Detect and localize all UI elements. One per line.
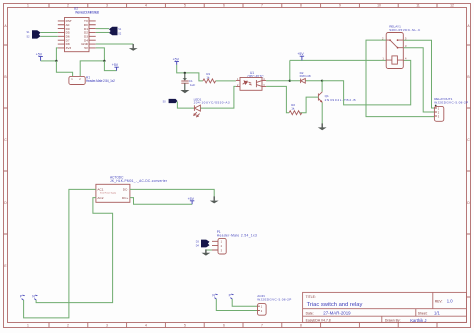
opto-coupler U1 OPC-817C [236,71,266,90]
+5V flag (ACTODC DC+) [188,197,195,204]
svg-text:AC1: AC1 [97,188,103,192]
svg-text:4: 4 [145,4,147,8]
wire base [300,97,319,113]
svg-text:5: 5 [184,4,186,8]
svg-text:+5V: +5V [173,58,180,62]
net flag P~ (ACIN) [229,294,234,300]
connector plug J-right (D1/D2) [109,27,122,36]
svg-text:1.0: 1.0 [447,299,453,304]
wire relay pin2 (COM) to RELAYOUT pin3 [366,40,434,117]
node junction (C1 tap) [184,72,186,74]
wire +5V rail to 3V3 junction [41,60,57,62]
wire collector node to coil pin4 [322,60,411,105]
svg-text:3: 3 [106,4,108,8]
wire LED1 to U1 pin2 [201,86,236,108]
net flag N~ (left) [32,295,37,301]
svg-text:2: 2 [67,4,69,8]
svg-text:6: 6 [223,4,225,8]
net flag P~ (left) [20,295,25,301]
node junction (D2 left) [289,80,291,82]
resistor R2 1k [289,103,302,115]
wire rail riser [289,60,291,80]
svg-text:7: 7 [261,4,263,8]
svg-text:RW148: RW148 [300,74,311,78]
wire D5 [41,31,58,33]
+5V flag (left of U2) [36,53,43,61]
wire P~ to ACIN pin1 [232,299,257,306]
svg-text:EasyEDA V4.7.8: EasyEDA V4.7.8 [306,319,331,323]
header H1 Header-Male 2.54_1x2 [69,75,115,84]
+5V flag (right of H1) [112,63,119,70]
wire relay pin3 (NO) to RELAYOUT pin2 [403,48,434,112]
wire D6 [41,35,58,37]
connector RELAYOUT1 WJ2EDGVC-5.08-2P [434,97,468,121]
svg-text:6: 6 [223,324,225,328]
wire 5V junction to H1 pin2 [80,61,104,77]
wire D1 [96,28,109,30]
svg-text:5: 5 [184,324,186,328]
svg-text:Triac switch and relay: Triac switch and relay [307,302,363,308]
connector plug (P1 input) [196,240,210,248]
converter ACTODC JK_HLK-PM01 AC-DC-converter [96,175,168,202]
connector plug S2 (LED input) [163,99,178,103]
wire D2 leads [290,80,322,82]
chip U2 Wemos D1 Mini Shield [58,7,99,52]
svg-text:2: 2 [67,324,69,328]
svg-text:Small Power Supply: Small Power Supply [100,192,116,194]
svg-text:+5V: +5V [188,197,195,201]
wire +5V rail to relay pin1 [290,59,386,61]
wire DC+ to +5V flag [130,198,192,205]
svg-text:9: 9 [339,4,341,8]
svg-text:7: 7 [261,324,263,328]
wire emitter to ground [321,103,323,128]
ground (below C1) [180,90,189,93]
svg-text:11: 11 [416,4,420,8]
ground (P1) [202,249,211,255]
wire R1 to U1 pin1 [216,80,236,82]
svg-text:1/1: 1/1 [434,311,440,316]
wire junction to H1 pin1 [56,61,72,77]
title block [303,292,467,322]
relay RELAY1 SRD-05VDC-SL-C [382,25,421,69]
svg-text:1uF: 1uF [190,83,195,87]
wire U1 pin3 to R2 [266,86,289,112]
wire P1 pin3 to ground [206,250,212,253]
wire U1 pin4 to +5V rail node [266,80,290,82]
svg-text:REV:: REV: [435,299,443,303]
svg-text:3: 3 [106,324,108,328]
wire C1 tap [184,73,186,80]
wire +5V to R1 [177,65,203,81]
node junction (5V rail) [103,60,105,62]
svg-text:3V3: 3V3 [66,46,72,50]
ground (top, U2 GND) [129,44,138,51]
transistor Q1 2N3904L-TB2-B [318,92,355,103]
svg-text:Sheet:: Sheet: [418,311,428,315]
svg-text:WJ2EDGVC-5.08-2P: WJ2EDGVC-5.08-2P [257,298,291,302]
wire collector riser [321,81,323,92]
svg-text:1: 1 [27,324,29,328]
diode D2 RW148 [300,71,311,83]
svg-text:Date:: Date: [306,311,314,315]
connector ACIN WJ2EDGVC-5.08-2P [257,294,291,315]
svg-text:204-10UYC/S530-A3: 204-10UYC/S530-A3 [194,101,230,105]
svg-text:Drawn By:: Drawn By: [385,319,401,323]
svg-text:+5V: +5V [112,63,119,67]
svg-text:8: 8 [300,324,302,328]
svg-text:1k: 1k [291,106,295,110]
svg-text:DC-: DC- [123,188,129,192]
ground (ACTODC DC-) [210,196,219,203]
node junction (3V3 rail) [55,60,57,62]
connector plug J-left (D5/D6) [27,30,41,38]
svg-text:Header-Male 2.54_1x3: Header-Male 2.54_1x3 [217,234,257,238]
resistor R1 1k [203,72,216,83]
svg-text:12: 12 [450,4,454,8]
wire 5V of U2 [96,48,105,61]
svg-text:SRD-05VDC-SL-C: SRD-05VDC-SL-C [389,28,421,32]
svg-text:Header-Male 2.54_1x2: Header-Male 2.54_1x2 [86,79,115,83]
svg-text:WJ2EDGVC-5.08-2P: WJ2EDGVC-5.08-2P [434,100,468,104]
svg-text:10: 10 [377,4,381,8]
svg-text:AC2: AC2 [97,196,103,200]
svg-text:27-MAR-2019: 27-MAR-2019 [323,311,351,316]
ground (below Q1) [318,123,327,130]
wire S2 to LED1 [177,102,194,109]
wire AC1 to P~ [24,189,96,318]
LED1 204-10UYC/S530-A3 [194,97,230,117]
wire DC- to ground [130,189,214,200]
svg-text:8: 8 [300,4,302,8]
svg-text:2N3904L-TB2-B: 2N3904L-TB2-B [325,98,356,102]
svg-text:Karthik J: Karthik J [410,318,426,323]
node junction (collector node) [321,80,323,82]
wire 3V3 of U2 [56,48,57,61]
wire GND of U2 [96,43,134,45]
svg-text:4: 4 [145,324,147,328]
+5V flag (relay rail) [297,52,304,60]
wire junction to +5V flag (right) [104,61,116,71]
wire D2 [96,31,109,33]
svg-text:JK_HLK-PM01_-_AC-DC-converter: JK_HLK-PM01_-_AC-DC-converter [110,179,168,183]
svg-text:Wemos D1 Mini Shield: Wemos D1 Mini Shield [75,11,99,15]
net flag N~ (ACIN) [212,294,217,300]
wire AC2 to N~ [36,198,113,303]
svg-text:TITLE:: TITLE: [306,295,316,299]
svg-text:+5V: +5V [36,53,43,57]
wire N~ to ACIN pin2 [216,299,257,311]
header P1 Header-Male 2.54_1x3 [212,230,257,254]
capacitor C1 1uF [181,78,195,90]
+5V flag (C1/R1 rail) [173,58,180,65]
svg-text:1: 1 [27,4,29,8]
svg-text:+5V: +5V [297,52,304,56]
wire relay pin5 (NC) to RELAYOUT pin1 [403,40,434,108]
svg-text:DC+: DC+ [122,196,128,200]
